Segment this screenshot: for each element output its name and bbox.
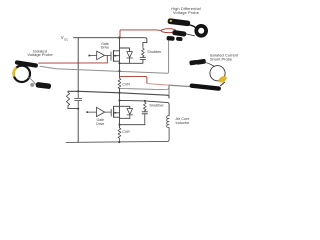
node Q2 body dot <box>114 112 116 114</box>
photo current shunt probe connector <box>169 59 228 91</box>
resistor snubber2 R <box>144 101 147 111</box>
capacitor DC link C <box>75 91 82 108</box>
resistor CVR2 <box>118 128 121 142</box>
wire U1 input stub <box>90 55 97 57</box>
wire DC source left branch vertical <box>77 38 79 92</box>
wire branch from switch area down to CVR1 <box>119 63 121 77</box>
transistor Q2 bottom MOSFET <box>111 108 119 117</box>
wire right bus above coil <box>168 85 170 96</box>
node dot drain line at snubber2 <box>144 100 146 102</box>
photo differential probe body <box>166 18 206 41</box>
svg-text:Drive: Drive <box>96 122 104 126</box>
svg-text:CVR: CVR <box>122 83 130 87</box>
resistor snubber1 R <box>142 46 145 57</box>
photo differential probe red loop lead <box>161 29 176 33</box>
diode D1 body diode <box>127 52 133 64</box>
label High Differential Voltage Probe <box>171 6 201 15</box>
node dots DC link <box>77 90 79 92</box>
wire CVR1 bottom to mid node <box>119 88 121 92</box>
wire DC source return vertical <box>77 109 79 142</box>
op-amp U1 gate drive (top) <box>97 51 105 60</box>
wire U2 to Q2 gate <box>105 111 111 113</box>
wire gray shunt return lead <box>120 86 170 90</box>
node dot mid line at branch <box>118 92 120 94</box>
label Air Core Inductor <box>176 117 190 125</box>
photo voltage probe body over loop <box>15 60 39 68</box>
wire coil to bottom rail and bottom rail <box>66 128 169 143</box>
transistor Q1 top MOSFET <box>111 51 120 62</box>
svg-text:Voltage Probe: Voltage Probe <box>27 52 53 57</box>
photo differential probe cable <box>189 25 196 29</box>
label Gate Drive (bottom) <box>96 118 104 126</box>
photo shunt probe body <box>189 83 221 91</box>
photo voltage probe yellow band <box>13 68 15 75</box>
resistor CVR1 <box>118 77 121 89</box>
wire U2 input stub <box>88 111 96 113</box>
capacitor snubber2 C <box>142 111 148 125</box>
photo shunt probe yellow tape <box>217 75 228 84</box>
node junction dot snubber1 bottom <box>118 62 120 64</box>
wire pale red lead continuation <box>147 84 169 86</box>
photo differential probe clip cluster <box>172 30 187 37</box>
wire snubber2 bottom connection <box>120 124 145 126</box>
capacitor snubber1 C <box>140 57 146 60</box>
wire snubber1 bottom connection <box>120 60 143 64</box>
wire mid node line <box>68 91 169 98</box>
photo differential probe green dot <box>170 20 172 22</box>
svg-text:CVR: CVR <box>122 130 130 134</box>
photo differential probe cable ring <box>196 26 206 36</box>
wire red lead of isolated voltage probe <box>39 62 108 64</box>
wire Q2 source and D2 anode wires <box>114 106 130 118</box>
inductor L1 air core inductor coil <box>167 116 169 128</box>
svg-text:Shunt Probe: Shunt Probe <box>210 57 233 62</box>
resistor DC link bleeder R <box>66 91 69 108</box>
node dot snubber2 bottom at branch <box>118 124 120 126</box>
wire red gate connection Q1 <box>105 55 111 63</box>
wire red lead to differential probe <box>120 30 161 38</box>
node Q1 body dot <box>114 55 116 57</box>
label Isolated Current Shunt Probe <box>210 53 239 62</box>
diode D2 body diode <box>127 109 133 119</box>
wire red shunt measurement lead <box>120 77 147 84</box>
svg-text:Snubber: Snubber <box>147 50 162 54</box>
wire top DC rail <box>74 38 147 46</box>
photo shunt probe tip wire <box>169 85 191 86</box>
photo isolated voltage probe body <box>13 60 51 89</box>
label Isolated Voltage Probe <box>27 48 53 57</box>
photo shunt probe thin cable loop <box>205 62 215 66</box>
photo voltage probe connector <box>30 83 34 87</box>
svg-text:Inductor: Inductor <box>176 121 190 125</box>
photo voltage probe tail wire <box>29 78 36 85</box>
node junction dot on rail at x119.5 <box>118 37 120 39</box>
svg-text:Voltage Probe: Voltage Probe <box>173 10 199 15</box>
node dot where gray lead crosses branch <box>118 70 120 72</box>
label Gate Drive (top) <box>101 42 109 50</box>
svg-text:DC: DC <box>64 37 68 41</box>
wire gray reference lead (probe to switch node, to diff probe clip) <box>40 37 173 73</box>
wire branch down to CVR2 <box>119 118 121 128</box>
wire top MOSFET branch drop <box>114 38 130 64</box>
node Vdc label <box>61 35 68 41</box>
op-amp U2 gate drive (bottom) <box>96 107 104 116</box>
wire bottom MOSFET drain connections <box>114 106 130 108</box>
wire Q1 source and D1 anode wires <box>114 60 120 62</box>
svg-text:Snubber: Snubber <box>149 104 164 108</box>
wire branch mid to bottom drain line <box>119 93 121 107</box>
node dot drain line at branch <box>118 99 120 101</box>
svg-text:Drive: Drive <box>101 46 109 50</box>
wire bottom drain line to inductor <box>120 100 170 115</box>
wire DC link bottom bus <box>68 108 78 110</box>
node dot bottom rail at CVR2 <box>118 141 120 143</box>
